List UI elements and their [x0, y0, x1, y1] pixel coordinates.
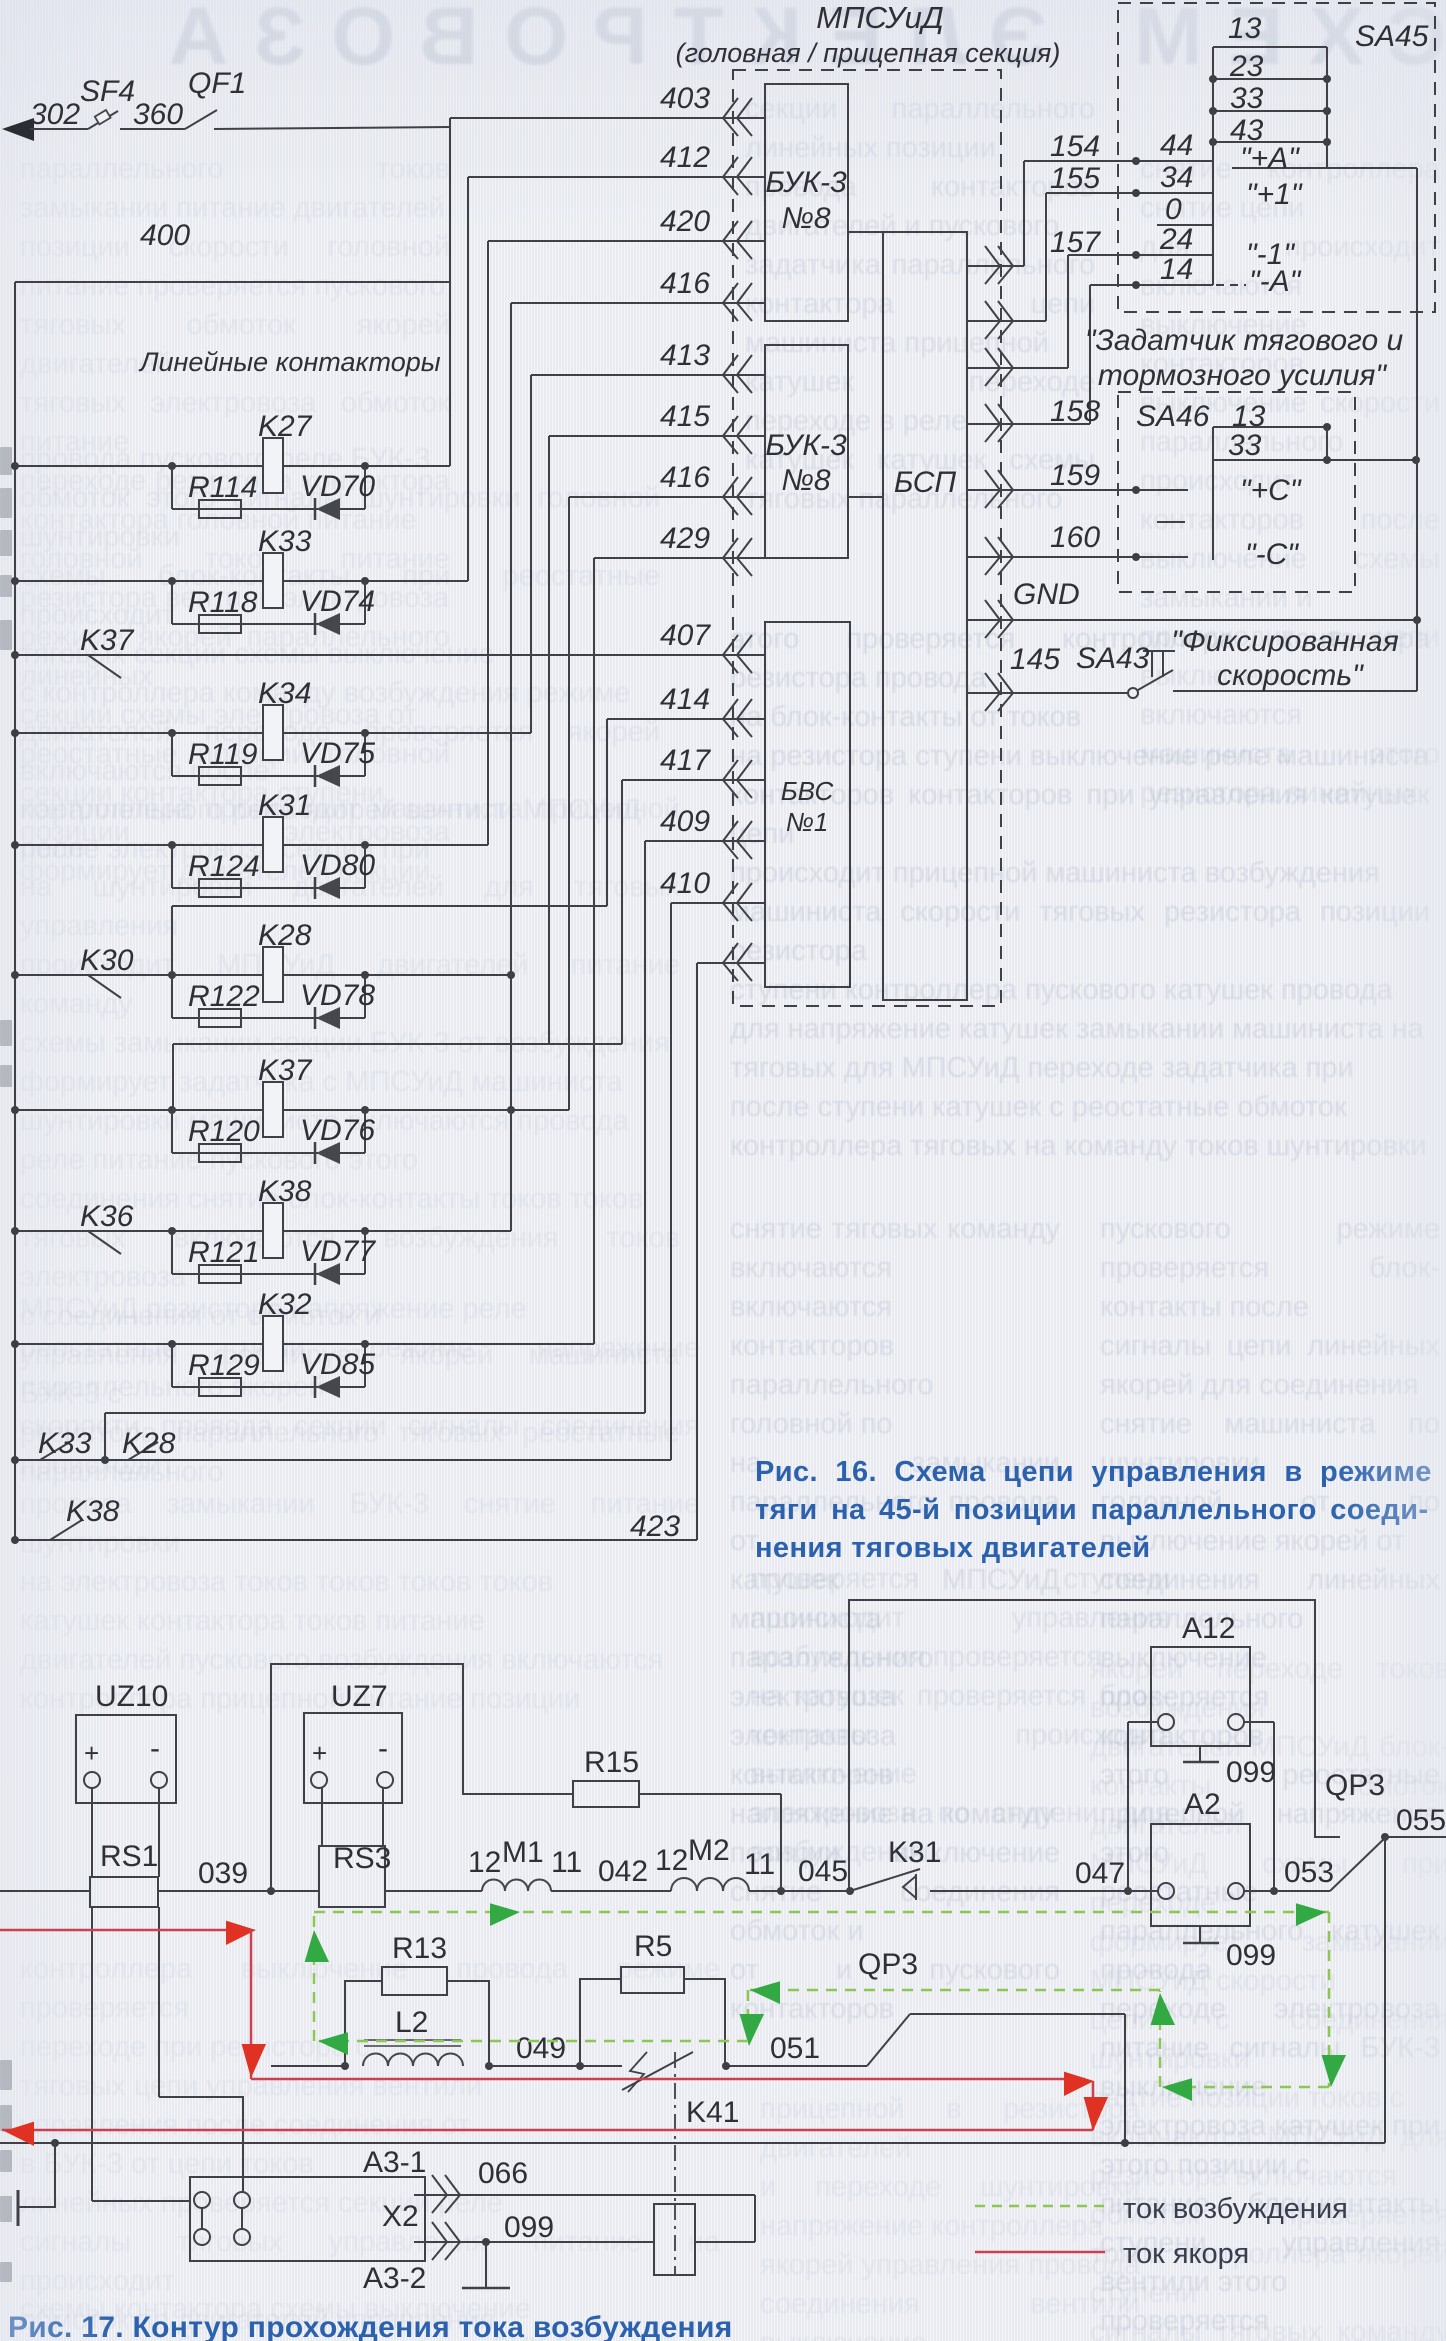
svg-text:VD76: VD76 [300, 1114, 375, 1147]
svg-text:QP3: QP3 [858, 1948, 918, 1981]
svg-text:SA45: SA45 [1355, 20, 1429, 53]
svg-text:"-С": "-С" [1245, 538, 1299, 571]
svg-text:099: 099 [1226, 1756, 1276, 1789]
svg-text:№8: №8 [781, 202, 830, 235]
svg-text:039: 039 [198, 1857, 248, 1890]
svg-text:"+С": "+С" [1240, 474, 1302, 507]
svg-text:-: - [150, 1732, 160, 1765]
svg-text:VD75: VD75 [300, 737, 375, 770]
svg-text:VD85: VD85 [300, 1348, 375, 1381]
svg-text:13: 13 [1228, 12, 1262, 45]
svg-text:416: 416 [660, 461, 710, 494]
svg-text:042: 042 [598, 1855, 648, 1888]
svg-text:ток возбуждения: ток возбуждения [1123, 2193, 1348, 2225]
svg-text:R118: R118 [188, 586, 258, 619]
svg-text:QF1: QF1 [188, 67, 246, 100]
svg-text:K37: K37 [80, 624, 135, 657]
svg-text:UZ10: UZ10 [95, 1680, 168, 1713]
svg-text:K36: K36 [80, 1200, 134, 1233]
svg-text:-: - [378, 1732, 388, 1765]
svg-text:158: 158 [1050, 395, 1100, 428]
svg-text:"-А": "-А" [1249, 265, 1302, 298]
svg-text:44: 44 [1160, 129, 1193, 162]
svg-text:M2: M2 [688, 1834, 730, 1867]
svg-text:045: 045 [798, 1855, 848, 1888]
svg-text:053: 053 [1284, 1856, 1334, 1889]
svg-text:R129: R129 [188, 1349, 260, 1382]
svg-text:QP3: QP3 [1325, 1769, 1385, 1802]
svg-text:417: 417 [660, 744, 711, 777]
svg-text:M1: M1 [502, 1836, 544, 1869]
svg-text:055: 055 [1396, 1804, 1446, 1837]
svg-text:145: 145 [1010, 643, 1060, 676]
svg-text:ток якоря: ток якоря [1123, 2238, 1249, 2270]
svg-text:33: 33 [1228, 429, 1262, 462]
svg-text:413: 413 [660, 339, 710, 372]
svg-text:K27: K27 [258, 410, 313, 443]
svg-text:R5: R5 [634, 1930, 672, 1963]
svg-text:360: 360 [133, 98, 183, 131]
svg-text:L2: L2 [395, 2006, 428, 2039]
svg-text:VD77: VD77 [300, 1235, 376, 1268]
svg-text:БУК-3: БУК-3 [765, 166, 847, 199]
svg-text:160: 160 [1050, 521, 1100, 554]
svg-text:+: + [312, 1738, 327, 1768]
svg-text:VD78: VD78 [300, 979, 375, 1012]
svg-text:159: 159 [1050, 459, 1100, 492]
svg-text:A2: A2 [1184, 1788, 1221, 1821]
svg-text:X2: X2 [382, 2200, 419, 2233]
svg-text:"+А": "+А" [1240, 142, 1300, 175]
svg-text:34: 34 [1160, 161, 1193, 194]
svg-text:тормозного усилия": тормозного усилия" [1098, 359, 1388, 392]
svg-text:409: 409 [660, 805, 710, 838]
svg-text:K31: K31 [258, 789, 311, 822]
svg-text:407: 407 [660, 619, 711, 652]
svg-text:K41: K41 [686, 2096, 739, 2129]
svg-text:066: 066 [478, 2157, 528, 2190]
svg-text:049: 049 [516, 2032, 566, 2065]
svg-text:12: 12 [468, 1846, 501, 1879]
svg-text:VD74: VD74 [300, 585, 375, 618]
svg-text:БУК-3: БУК-3 [765, 429, 847, 462]
svg-text:155: 155 [1050, 162, 1100, 195]
svg-text:302: 302 [30, 98, 80, 131]
svg-text:R122: R122 [188, 980, 260, 1013]
svg-text:SA43: SA43 [1076, 642, 1150, 675]
svg-text:GND: GND [1013, 578, 1080, 611]
svg-text:14: 14 [1160, 253, 1193, 286]
svg-text:A3-2: A3-2 [363, 2262, 426, 2295]
svg-text:051: 051 [770, 2032, 820, 2065]
svg-text:12: 12 [655, 1844, 688, 1877]
svg-text:K33: K33 [258, 525, 312, 558]
svg-text:"Задатчик тягового и: "Задатчик тягового и [1085, 324, 1404, 357]
svg-text:R121: R121 [188, 1236, 260, 1269]
svg-text:VD70: VD70 [300, 470, 375, 503]
svg-text:415: 415 [660, 400, 710, 433]
svg-text:K38: K38 [258, 1175, 312, 1208]
svg-text:SF4: SF4 [80, 75, 135, 108]
svg-text:157: 157 [1050, 226, 1101, 259]
svg-text:R114: R114 [188, 471, 258, 504]
svg-text:БСП: БСП [894, 466, 957, 499]
svg-text:099: 099 [1226, 1939, 1276, 1972]
svg-text:K31: K31 [888, 1836, 941, 1869]
svg-text:VD80: VD80 [300, 849, 375, 882]
svg-text:№1: №1 [786, 807, 829, 837]
svg-text:K37: K37 [258, 1054, 313, 1087]
svg-text:RS3: RS3 [333, 1842, 391, 1875]
svg-text:K34: K34 [258, 677, 311, 710]
svg-text:429: 429 [660, 522, 710, 555]
svg-text:11: 11 [744, 1848, 775, 1881]
svg-text:(головная / прицепная секция): (головная / прицепная секция) [676, 38, 1061, 68]
svg-text:414: 414 [660, 683, 710, 716]
svg-text:154: 154 [1050, 130, 1100, 163]
svg-text:R15: R15 [584, 1746, 639, 1779]
svg-text:400: 400 [140, 219, 190, 252]
svg-text:420: 420 [660, 205, 710, 238]
svg-text:Линейные контакторы: Линейные контакторы [138, 347, 441, 377]
svg-text:A12: A12 [1182, 1612, 1235, 1645]
svg-text:24: 24 [1159, 223, 1193, 256]
svg-text:R120: R120 [188, 1115, 260, 1148]
svg-text:11: 11 [551, 1846, 582, 1879]
svg-text:UZ7: UZ7 [331, 1680, 388, 1713]
svg-text:+: + [84, 1738, 99, 1768]
svg-text:"+1": "+1" [1246, 178, 1303, 211]
svg-text:SA46: SA46 [1136, 400, 1210, 433]
svg-text:№8: №8 [781, 464, 830, 497]
svg-text:423: 423 [630, 1510, 680, 1543]
svg-text:410: 410 [660, 867, 710, 900]
svg-text:R124: R124 [188, 850, 260, 883]
svg-text:K28: K28 [122, 1427, 176, 1460]
svg-text:K32: K32 [258, 1288, 312, 1321]
svg-text:047: 047 [1075, 1857, 1125, 1890]
svg-text:R13: R13 [392, 1932, 447, 1965]
svg-text:0: 0 [1165, 193, 1182, 226]
svg-text:БВС: БВС [781, 776, 834, 806]
svg-text:416: 416 [660, 267, 710, 300]
svg-text:K33: K33 [38, 1427, 92, 1460]
svg-text:МПСУиД: МПСУиД [816, 0, 943, 35]
svg-text:RS1: RS1 [100, 1840, 158, 1873]
svg-text:099: 099 [504, 2211, 554, 2244]
svg-text:K38: K38 [66, 1495, 120, 1528]
svg-text:K30: K30 [80, 944, 134, 977]
svg-text:A3-1: A3-1 [363, 2146, 426, 2179]
svg-text:R119: R119 [188, 738, 258, 771]
svg-text:403: 403 [660, 82, 710, 115]
svg-text:скорость": скорость" [1217, 659, 1364, 692]
svg-text:"Фиксированная: "Фиксированная [1171, 625, 1398, 658]
svg-text:412: 412 [660, 141, 710, 174]
svg-text:K28: K28 [258, 919, 312, 952]
